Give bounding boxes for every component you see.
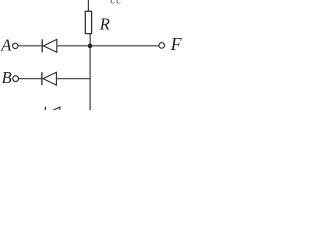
svg-text:R: R <box>99 15 110 34</box>
diode D2 cathode bar <box>41 72 43 85</box>
svg-text:B: B <box>2 68 12 87</box>
diode D3 triangle (cropped at bottom edge) <box>47 107 60 113</box>
wire input A to diode D1 <box>18 45 42 47</box>
resistor R <box>85 11 91 33</box>
wire vertical bus from resistor to bottom edge <box>89 34 91 110</box>
diode D2 triangle <box>43 72 56 85</box>
node B input terminal <box>13 76 19 82</box>
node junction dot at output node <box>88 44 93 49</box>
node A input terminal <box>13 43 18 48</box>
node F output terminal <box>159 43 165 49</box>
diode D1 triangle <box>43 39 56 52</box>
wire input B to diode D2 <box>19 78 42 80</box>
wire diode D2 to bus <box>56 78 90 80</box>
svg-text:A: A <box>0 35 12 54</box>
wire Vcc supply lead <box>87 0 89 11</box>
wire bus to output F <box>90 45 159 47</box>
wire diode D1 to bus <box>57 45 90 47</box>
diode D1 cathode bar <box>41 39 43 52</box>
diode D3 cathode bar (cropped at bottom edge) <box>44 107 46 110</box>
svg-text:F: F <box>170 34 182 54</box>
svg-text:cc: cc <box>110 0 122 7</box>
